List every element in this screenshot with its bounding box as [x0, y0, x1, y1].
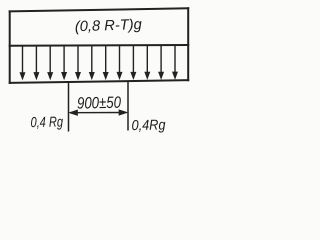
distributed load arrows: [20, 46, 178, 80]
load arrow 12: [173, 46, 178, 79]
svg-text:900±50: 900±50: [77, 94, 121, 113]
load box top edge: [10, 8, 189, 11]
load arrow 10: [145, 46, 150, 79]
right extension line: [127, 81, 129, 131]
load box right edge: [187, 8, 189, 80]
load arrow 3: [48, 46, 53, 79]
load arrow 11: [159, 46, 164, 79]
load arrow 6: [89, 46, 94, 79]
beam line: [10, 80, 189, 83]
dimension line 900±50: [69, 110, 127, 116]
load arrow 1: [20, 46, 25, 79]
load box divider line: [10, 44, 189, 47]
load arrow 5: [76, 46, 81, 79]
load arrow 9: [131, 46, 136, 79]
svg-text:0,4Rg: 0,4Rg: [131, 117, 165, 134]
load arrow 4: [62, 46, 67, 79]
svg-text:0,4 Rg: 0,4 Rg: [30, 114, 63, 131]
load arrow 7: [103, 46, 108, 79]
left extension line: [68, 82, 70, 132]
load arrow 2: [34, 46, 39, 79]
svg-text:(0,8 R-T)g: (0,8 R-T)g: [75, 17, 143, 35]
load arrow 8: [117, 46, 122, 79]
load box left edge: [9, 11, 11, 83]
